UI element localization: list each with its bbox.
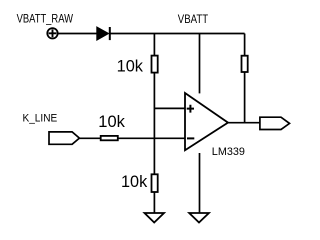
svg-text:K_LINE: K_LINE — [23, 112, 58, 124]
hierarchical label output tag — [260, 117, 290, 129]
svg-text:10k: 10k — [121, 172, 148, 191]
plus input marker — [187, 105, 194, 113]
diode D1 — [97, 27, 110, 40]
svg-text:10k: 10k — [117, 57, 144, 76]
ground GND2 — [189, 213, 209, 223]
minus input marker — [187, 137, 194, 139]
wire anode — [58, 33, 96, 35]
resistor R2 10k (series) — [101, 136, 118, 140]
wire + input — [154, 107, 185, 109]
op-amp U1 LM339 — [185, 93, 228, 150]
wire K_LINE to resistor — [79, 137, 185, 139]
wire op-amp power stub — [199, 34, 201, 94]
resistor R3 10k (divider bottom) — [152, 174, 158, 192]
resistor R4 (pullup) — [242, 56, 248, 72]
wire op-amp ground stub — [199, 153, 201, 213]
svg-text:VBATT: VBATT — [178, 13, 208, 26]
ground GND1 — [145, 213, 165, 223]
svg-text:10k: 10k — [98, 112, 125, 131]
hierarchical label K_LINE (input tag) — [49, 132, 79, 144]
svg-text:VBATT_RAW: VBATT_RAW — [17, 13, 73, 26]
wire divider vertical — [153, 34, 155, 214]
wire output — [228, 122, 260, 124]
wire VBATT rail — [110, 33, 245, 35]
svg-text:LM339: LM339 — [212, 146, 245, 158]
resistor R1 10k (divider top) — [152, 56, 158, 73]
wire pullup vertical — [244, 34, 246, 123]
power flag +BATT — [47, 28, 57, 38]
